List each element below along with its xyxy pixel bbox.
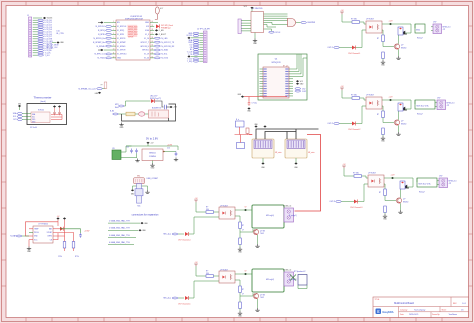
power flag mid right of J1 [52,42,56,44]
transistor emitter ground ch2 [398,125,400,132]
svg-text:IO_GPIO9: IO_GPIO9 [117,50,125,52]
svg-text:S8050: S8050 [401,123,406,125]
ground buzzer return [119,123,123,126]
svg-text:C? 10u: C? 10u [252,103,258,105]
net label oval DC at J2 [193,44,199,46]
svg-text:N_TXD0: N_TXD0 [98,58,105,60]
power flag +5V channel 3 [342,166,346,168]
wire to transistor base ch3 [385,196,396,201]
svg-text:OUT-1: OUT-1 [327,47,333,49]
svg-text:N_GPIO18_RX: N_GPIO18_RX [161,46,175,48]
input net oval ch3 [336,201,342,203]
svg-text:MultiControl Board: MultiControl Board [394,302,414,305]
svg-text:IO_SPICS: IO_SPICS [117,38,126,40]
net label oval N_SPICLK at U1 left [106,25,112,27]
net label oval LCD_RS [38,38,44,40]
net label oval at U4 right row9 [295,90,301,92]
connector J3 body left of U3 [238,19,241,34]
wire opto out bottom mic ch2 [235,280,240,286]
input wire up to opto mic ch2 [188,281,219,298]
svg-text:330: 330 [206,209,209,211]
green shield box mic ch1 [252,205,284,228]
svg-text:J1: J1 [27,15,29,17]
speaker jumper X ch2 [290,275,296,281]
transistor emitter ground mic ch2 [257,299,259,308]
input diode red ch2 [352,122,355,126]
U6 right pin wires red [53,228,60,230]
wire opto out bottom mic ch1 [235,216,240,222]
svg-text:N_SPICLK: N_SPICLK [96,26,106,28]
net label oval LCD_D7 [38,36,44,38]
ground below divider ch1 [382,59,384,61]
J1 pin wire 15 [33,52,38,54]
transistor collector wire ch3 [400,188,402,198]
wire power to rail [147,144,149,146]
svg-text:4 GMA_GND_PAD_TTH: 4 GMA_GND_PAD_TTH [109,241,130,244]
wire opto out top ch3 [384,177,391,179]
power flag above caps 2 [58,105,61,107]
U3 lower right wire [264,29,272,31]
svg-text:N_SCL: N_SCL [161,54,167,56]
antenna ANT1 [155,7,159,14]
power flag +12V ch3 [391,177,394,179]
J2 pin 6 wire [199,44,203,46]
green shield box mic ch2 [252,269,284,292]
J2 pin 7 wire [199,46,203,48]
resistor divider top ch2 [382,111,385,118]
transformer T2 ground flag [294,162,297,164]
transformer T1 ground flag [261,162,264,164]
net label oval LCD_CS [38,45,44,47]
net label oval RST below gate [269,31,275,33]
wire bead to buzzer [145,113,149,115]
J2 pin 9 wire [199,51,203,53]
svg-text:CN?: CN? [439,176,442,178]
U1 right pin 8 wire [150,49,154,51]
svg-text:N_SPK_Out: N_SPK_Out [94,53,105,56]
net label oval N_SDA at U1 right [154,49,160,51]
wire opto out bottom ch2 [382,106,383,111]
svg-text:YourCompany: YourCompany [414,309,425,311]
svg-text:R_out(p2): R_out(p2) [289,278,297,281]
wire oval1 up [124,101,125,106]
svg-text:IO_20: IO_20 [144,58,149,60]
svg-text:0R_ratio: 0R_ratio [308,151,314,154]
wire from +5V flag ch1 [342,14,352,22]
transformer T1 bottom pin [262,158,264,163]
svg-text:R? 330: R? 330 [353,173,359,175]
input diode red mic ch2 [185,296,188,300]
net label oval LCD_WR [38,40,44,42]
svg-text:SCL: SCL [32,116,35,118]
svg-text:Sheet:: Sheet: [442,308,447,311]
J2 pin 1 wire [199,32,203,34]
resistor R mic ch1 [206,211,214,214]
svg-text:0R_ratio: 0R_ratio [275,151,281,154]
expansion row 2 wire [108,229,138,231]
svg-text:R?2k: R?2k [75,256,79,258]
svg-text:SS34: SS34 [416,30,420,32]
U4 left pin 7 [260,83,264,85]
svg-text:IO3: IO3 [146,26,149,28]
svg-text:CN4 Channel-1: CN4 Channel-1 [348,53,360,55]
svg-text:KF301-5.0: KF301-5.0 [449,180,457,182]
bottom return wire black [122,104,176,121]
svg-text:MIC-in(p2): MIC-in(p2) [266,279,274,281]
transistor emitter ground mic ch1 [257,235,259,244]
wire +5V to resistor mic ch2 [196,266,206,276]
title block inner lines [373,297,469,318]
U3 right pin wires [264,13,288,15]
IC U4 body [263,67,289,98]
svg-text:CLK2: CLK2 [302,91,306,93]
svg-text:Relay?: Relay? [417,114,423,116]
U1 right pin 1 wire [150,22,154,24]
input wire to opto ch2 [356,106,367,124]
J2 pin 11 wire [199,56,203,58]
transistor Q mic ch2 [253,293,258,298]
svg-text:Q?: Q? [401,121,403,123]
net label oval N_SPK_Out at U1 left [106,53,112,55]
svg-text:N_SPICS_Ex: N_SPICS_Ex [93,38,104,40]
net label oval GND at J2 [193,32,199,34]
U1 left pin 6 wire [112,41,116,43]
relay drive loop ch2 [389,100,411,109]
IC U6 body [33,226,53,243]
svg-text:MIC-1(+): MIC-1(+) [163,234,171,236]
input diode red mic ch1 [185,232,188,236]
svg-text:R?1k: R?1k [58,256,62,258]
U1 left pin 9 wire [112,53,116,55]
U1 left pin 7 wire [112,45,116,47]
J1 pin wire 9 [33,38,38,40]
speaker box [298,275,307,286]
svg-text:YourName: YourName [449,314,457,316]
svg-text:SPI_TFT_CLK: SPI_TFT_CLK [47,47,59,49]
wire opto out top ch2 [382,99,389,101]
input wire mic ch1 [178,233,184,235]
J1 pin wire 1 [33,19,38,21]
transformer T2 bottom pin [295,158,297,163]
net label oval BL at J2 [193,49,199,51]
net label oval LCD_D2 [38,24,44,26]
net label oval SDA at J2 [193,39,199,41]
wire oval2 to resistor [118,113,126,115]
J1 pin wire 14 [33,49,38,51]
svg-text:C?: C? [242,230,244,232]
J3 to U3 wire 5 [241,30,251,32]
input wire ch1 [339,47,352,49]
U4 right pin 7 [289,83,293,85]
power flag +5V mic channel 2 [194,264,198,266]
svg-text:OUT-3: OUT-3 [329,201,335,203]
net label oval T_CLK [38,52,44,54]
power flag +3V3 buzzer [166,106,169,108]
net label oval N_SPEAK [97,88,103,90]
transformer T2 outer box [285,139,307,158]
svg-text:T_DO: T_DO [45,55,51,57]
input rail to caps and IC [126,145,132,147]
svg-text:U? TP4056: U? TP4056 [38,224,48,226]
svg-text:3V3: 3V3 [13,119,16,121]
wire to transistor base ch2 [383,118,394,123]
svg-text:U? EL817: U? EL817 [366,95,374,97]
J2 pin 2 wire [199,35,203,37]
net label oval T_IRQ at J2 [193,60,199,62]
input wire to opto ch3 [358,184,369,202]
svg-text:C?: C? [242,294,244,296]
svg-text:N_SPIQ: N_SPIQ [98,30,105,32]
power flag +5V out mic ch1 [244,209,247,211]
U4 right pin 3 [289,73,293,75]
net label oval LCD_BL [38,50,44,52]
input net oval ch1 [334,47,340,49]
input net oval ch2 [334,123,340,125]
svg-text:OUT-2: OUT-2 [327,123,333,125]
wire out to cap [53,227,81,231]
resistor pulldown top mic ch1 [239,222,242,229]
svg-text:1.0.1: 1.0.1 [462,303,466,305]
net label oval N_GPIO18_RX at U1 right [154,45,160,47]
wire resistor to opto ch1 [360,22,367,24]
wire opto out top mic ch2 [235,273,244,275]
resistor R bat 2 [73,232,75,241]
expansion row 1 wire [108,222,140,224]
svg-text:Q?: Q? [403,199,405,201]
svg-text:GPIO17_T: GPIO17_T [140,42,149,44]
ground below pulldown mic ch1 [239,245,241,248]
net label oval LCD_RD [38,43,44,45]
svg-text:J2 TFT-1.8-SPI: J2 TFT-1.8-SPI [197,28,210,30]
transistor emitter ground ch1 [398,49,400,56]
net label oval N_SPICS_Ex at U1 left [106,37,112,39]
J2 pin 10 wire [199,53,203,55]
red wire from T2 to long vertical [295,135,321,212]
gate symbol driver [288,19,296,27]
net label oval N_LED at U1 right [154,37,160,39]
flyback diode ch2 [399,107,407,110]
transformer T1 pin header [254,140,272,149]
svg-text:R?: R? [377,114,379,116]
J2 pin 12 wire [199,58,203,60]
input wire mic ch2 [178,297,184,299]
ground below input caps [136,153,138,157]
red wire from U4 bottom left [244,96,287,98]
junction wire mic ch1 [240,229,253,233]
svg-text:VCC33: VCC33 [186,35,192,37]
wire resistor to opto ch3 [362,176,369,178]
svg-text:ME6211: ME6211 [149,153,156,155]
input net oval mic ch2 [172,297,178,299]
svg-text:IO_19: IO_19 [144,54,149,56]
red wire T1 left [249,134,252,136]
svg-text:Company:: Company: [400,309,408,311]
U4 left pin 2 [260,70,264,72]
svg-text:N_IO20: N_IO20 [161,58,168,60]
svg-text:CN?: CN? [433,22,436,24]
connector J1 body [29,17,32,57]
svg-text:EasyEDA: EasyEDA [383,311,394,314]
tan resistor R buzzer [126,112,135,116]
svg-text:GND: GND [117,58,122,60]
ground below U6 [28,240,30,247]
svg-text:1/1: 1/1 [461,309,464,311]
net label oval at U4 right row8 [295,88,301,90]
input wire to opto ch1 [356,30,367,48]
net label oval N_SCL at U1 right [154,53,160,55]
resistor R ch1 [352,21,360,24]
title block outer rect [373,297,469,318]
resistor R bat 1 [64,236,66,242]
wire from N_SPEAK oval [102,84,105,89]
transformer T1 outer box [252,139,274,158]
svg-text:J15: J15 [112,148,115,150]
svg-text:IO_SPIHD: IO_SPIHD [117,46,126,48]
J1 pin wire 10 [33,40,38,42]
ground flag below capacitor [247,107,250,109]
net label oval CS at J2 [193,46,199,48]
red wire loop top [33,221,58,223]
svg-text:U? EL817: U? EL817 [366,19,374,21]
net label oval LCD_D4 [38,29,44,31]
svg-text:T_CS: T_CS [188,54,193,56]
svg-text:GPIO18_U: GPIO18_U [140,46,149,48]
power flag +5V channel 2 [340,88,344,90]
U4 left pin 4 [260,75,264,77]
transformer bundle black wires [256,129,319,139]
U1 left pin 1 wire [112,22,116,24]
svg-text:N_BAT: N_BAT [10,235,17,238]
net label oval LCD_D1 [38,22,44,24]
power flag C_EN at U1 right pin 3 [155,29,158,31]
U4 left pin 1 [260,68,264,70]
svg-text:Drawn By:: Drawn By: [432,313,440,316]
U4 right pin 5 [289,78,293,80]
J2 pin 3 wire [199,37,203,39]
svg-text:KF301-5.0: KF301-5.0 [443,26,451,28]
power flag +12V ch2 [389,99,392,101]
svg-text:Relay?: Relay? [419,192,425,194]
ground below U3 [254,33,256,39]
relay coil box ch3 [400,181,405,189]
power flag top right 2 [63,217,66,219]
output capacitor C17 [175,152,178,157]
expansion row 4 wire [108,244,134,246]
svg-text:1 GMA_GND_PAD_TTH: 1 GMA_GND_PAD_TTH [109,220,130,223]
ground left of microphone [133,186,137,189]
svg-text:33: 33 [151,49,153,51]
U3 right wire verticals [264,22,288,24]
svg-text:C_BOOT: C_BOOT [159,34,167,36]
wire opto to shield mic ch1 [244,209,252,211]
connector J2 body [203,31,207,63]
wire opto out bottom ch1 [382,30,383,35]
svg-text:37: 37 [151,33,153,35]
red LED charge indicator [60,227,63,231]
power flag at U3 top [251,9,253,12]
ground flag below U4 left [241,96,244,98]
net label oval LCD_D6 [38,33,44,35]
input diode red ch3 [354,200,357,204]
svg-text:PROG: PROG [34,232,39,234]
net label oval N_SPIQ at U1 left [106,29,112,31]
svg-text:CN?: CN? [437,98,440,100]
svg-text:C_EN: C_EN [159,30,164,32]
net label oval T_DO [38,54,44,56]
svg-text:U1,ESP32-S3: U1,ESP32-S3 [130,16,142,18]
resistor R ch3 [354,175,362,178]
capacitor C at U2 [53,111,56,116]
net label oval T_CS at J2 [193,53,199,55]
wire resistor to opto mic ch1 [214,211,220,213]
wire opto out bottom ch3 [384,184,385,189]
power flag left of thermometer [18,105,21,107]
svg-text:GPIO8: GPIO8 [128,37,133,39]
svg-text:9kHz: 9kHz [115,107,119,109]
thermometer outline box [27,104,67,125]
svg-text:MIC-2(+): MIC-2(+) [163,298,171,300]
svg-text:2 GMA_GND_PAD_TTH: 2 GMA_GND_PAD_TTH [109,227,130,230]
U1 left pin 8 wire [112,49,116,51]
svg-text:IO_SPIQ: IO_SPIQ [117,30,125,32]
wire resistor to opto mic ch2 [214,275,220,277]
ground below regulator IC [152,161,154,164]
net label oval LCD_RST [38,47,44,49]
resistor pulldown top mic ch2 [239,286,242,293]
svg-text:R? 330: R? 330 [351,95,357,97]
net label oval N_SPIHD at U1 left [106,45,112,47]
capacitor C15 [130,149,133,154]
wire opto out top mic ch1 [235,209,244,211]
svg-text:MOS 30-V 4.7A: MOS 30-V 4.7A [417,105,430,108]
net label oval N_SPID at U1 left [106,33,112,35]
U1 left pin 10 wire [112,57,116,59]
svg-text:N_BZ: N_BZ [110,111,114,113]
J2 pin 13 wire [199,60,203,62]
transformer T2 pin header [287,140,305,149]
ferrite bead FB [139,112,145,116]
svg-text:330: 330 [206,273,209,275]
ground below output cap [174,158,178,161]
power flags above transformers [254,125,257,127]
net label oval LCD_D3 [38,26,44,28]
green terminal block [112,150,121,160]
power flag at U4 right row5 [296,80,299,82]
J1 pin wire 8 [33,36,38,38]
svg-text:C15: C15 [126,147,129,149]
flyback diode ch3 [401,185,409,188]
svg-text:C28M5G: C28M5G [149,156,157,158]
U4 left pin 5 [260,78,264,80]
U1 right pin 2 wire [150,25,154,27]
capacitor C buzzer [165,105,167,109]
svg-text:MOS 30-V 4.7A: MOS 30-V 4.7A [419,183,432,186]
input wire ch2 [339,123,352,125]
ground flag near N_SPEAK [98,92,101,94]
J1 pin wire 12 [33,45,38,47]
svg-text:SCL: SCL [13,116,17,118]
power flag above caps 1 [53,105,56,107]
resistor divider bottom ch1 [382,52,385,59]
resistor pulldown bottom mic ch2 [239,296,241,302]
svg-text:N_GPIO17_TX: N_GPIO17_TX [161,42,174,44]
svg-text:IO_10: IO_10 [144,38,149,40]
ground below divider ch3 [384,213,386,215]
green wire box around U4 [258,54,307,100]
wire gate output [296,22,301,24]
svg-text:TITLE:: TITLE: [375,299,381,301]
power flag at J2 pin 3 [191,37,199,39]
